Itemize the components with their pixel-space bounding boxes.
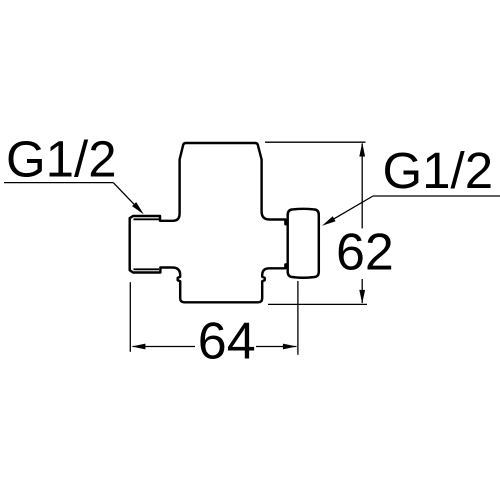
- fitting body outline: [130, 143, 289, 302]
- leader left arrowhead: [132, 202, 144, 214]
- left port thread line bottom: [134, 268, 160, 270]
- right port cylinder: [288, 209, 319, 278]
- dim 64 line right segment: [256, 346, 297, 348]
- leader right diagonal: [334, 196, 373, 219]
- svg-text:62: 62: [336, 224, 394, 282]
- dim 62 line upper segment: [361, 144, 363, 229]
- leader right underline: [373, 195, 500, 197]
- leader left diagonal: [113, 183, 136, 207]
- dim 62 arrow down: [359, 290, 365, 304]
- dim 62 arrow up: [359, 143, 365, 157]
- dim 62 line lower segment: [361, 279, 363, 303]
- leader left underline: [4, 182, 113, 184]
- dim 64 extension line right: [297, 281, 299, 355]
- dim 64 extension line left: [129, 282, 131, 352]
- dim 64 arrow right: [283, 344, 297, 350]
- dim 62 extension line top: [265, 141, 366, 143]
- svg-text:G1/2: G1/2: [6, 131, 117, 188]
- svg-text:64: 64: [198, 313, 256, 371]
- left port thread line top: [134, 218, 160, 220]
- dim 64 line left segment: [133, 346, 196, 348]
- dim 64 arrow left: [132, 344, 146, 350]
- leader right arrowhead: [322, 216, 336, 226]
- dim 62 extension line bottom: [268, 303, 367, 305]
- svg-text:G1/2: G1/2: [383, 142, 494, 199]
